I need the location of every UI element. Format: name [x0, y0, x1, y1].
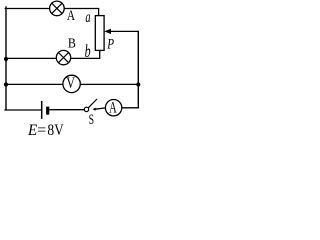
wire: battery to switch [49, 109, 84, 111]
svg-text:V: V [66, 75, 75, 92]
wire: wiper to right rail [110, 30, 140, 32]
wire: bottom rail (left corner to battery) [4, 109, 41, 111]
battery E positive plate [41, 101, 43, 119]
wire: top rail [5, 8, 100, 10]
lamp B [56, 50, 70, 64]
rheostat R body [95, 16, 104, 51]
svg-text:A: A [109, 99, 117, 116]
lamp A [50, 1, 65, 16]
wire: right rail [137, 31, 139, 107]
voltmeter V [63, 75, 80, 92]
svg-text:a: a [85, 9, 90, 26]
switch S [84, 99, 97, 112]
wire: rheostat terminal b down to lamp B row [6, 50, 100, 58]
wire: voltmeter row [6, 83, 138, 85]
battery E negative plate [46, 107, 49, 115]
rheostat wiper arrow P [104, 29, 111, 34]
svg-text:V: V [54, 122, 64, 138]
wire: drop from top rail to rheostat terminal a [98, 9, 100, 17]
svg-text:P: P [107, 37, 115, 53]
junction dot: left rail / lamp B row [4, 57, 8, 61]
wire: ammeter to right corner [122, 107, 139, 109]
svg-text:S: S [89, 112, 94, 128]
svg-text:B: B [68, 37, 76, 52]
wire: switch to ammeter [95, 108, 106, 109]
svg-text:=: = [37, 122, 46, 138]
wire: left rail [5, 6, 7, 110]
ammeter A [105, 99, 121, 116]
junction dot: left rail / voltmeter row [4, 82, 8, 86]
junction dot: right rail / voltmeter row [136, 82, 140, 86]
svg-text:E: E [27, 122, 37, 138]
svg-text:A: A [67, 8, 76, 24]
